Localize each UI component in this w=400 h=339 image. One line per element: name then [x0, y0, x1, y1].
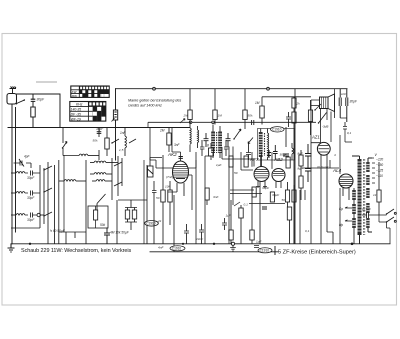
IF transformer 1: [190, 125, 245, 159]
svg-text:50: 50: [234, 171, 238, 175]
potentiometer near tables: [112, 110, 118, 122]
svg-text:4: 4: [334, 153, 336, 157]
svg-text:0,1: 0,1: [347, 131, 352, 135]
capacitor 30pF top-left: [31, 97, 45, 102]
svg-text:Marke gelten bei Einstellung d: Marke gelten bei Einstellung des: [128, 99, 181, 103]
verticals: [86, 128, 99, 244]
caps small: [262, 207, 267, 209]
svg-text:AB2: AB2: [273, 157, 283, 162]
IF transformer 2: [246, 129, 295, 167]
svg-text:KHz: KHz: [76, 103, 83, 107]
resistor: [105, 138, 109, 149]
resistor left chain: [31, 107, 35, 117]
svg-text:24nF: 24nF: [195, 237, 204, 241]
svg-text:AZ1: AZ1: [311, 135, 320, 140]
svg-text:1nF: 1nF: [341, 92, 346, 96]
wire secondary bottom line: [150, 251, 278, 253]
rectifier tube AZ1: [311, 135, 333, 244]
cap 30pF at 99: [97, 132, 102, 134]
svg-text:30pF: 30pF: [37, 98, 46, 102]
resistor 2M AK2 grid: [159, 128, 181, 152]
AK2 grid cap: [179, 157, 183, 159]
tube AK2: [167, 152, 189, 196]
horizontal coil rows: [90, 162, 94, 164]
ground mid bottom: [230, 245, 236, 251]
svg-text:Hp: Hp: [339, 223, 343, 227]
svg-text:Kp: Kp: [339, 207, 343, 211]
row 2 black cells: [79, 90, 109, 94]
osc coil box left of AK2: [148, 158, 163, 244]
AK2 bias resistors: [144, 155, 177, 252]
svg-text:~125: ~125: [376, 169, 383, 173]
svg-text:1M: 1M: [218, 114, 223, 118]
coil vertical at 125: [124, 128, 126, 137]
C1910 bottom label: [158, 246, 185, 251]
svg-text:2k: 2k: [296, 102, 301, 106]
svg-text:1k: 1k: [373, 193, 377, 197]
tube AB2: [272, 157, 285, 188]
long vertical wires right section: [300, 100, 340, 244]
diode arrow left: [248, 138, 253, 144]
svg-text:Ϟ 60 50µF: Ϟ 60 50µF: [50, 229, 66, 233]
switch columns: [40, 160, 75, 244]
switch right top: [317, 113, 352, 170]
switch table 1: [71, 86, 109, 98]
resistor drop R-d x262: [255, 97, 311, 125]
body black cells: [93, 106, 106, 121]
svg-text:-3dB: -3dB: [322, 125, 328, 129]
wire ground bus bottom: [11, 243, 390, 245]
coil row 3: [11, 214, 16, 216]
svg-text:8: 8: [207, 144, 209, 148]
primary winding boxes: [352, 188, 356, 244]
left column resistors near AZ1: [294, 100, 321, 244]
wire vertical x62: [17, 94, 61, 128]
svg-text:8µF: 8µF: [298, 167, 303, 171]
switch table 2: [70, 102, 106, 122]
bottom node circles: [213, 243, 215, 245]
svg-text:30pF: 30pF: [27, 218, 35, 222]
svg-text:0,1: 0,1: [244, 203, 249, 207]
svg-text:5 ZF-Kreise (Einbereich-Super): 5 ZF-Kreise (Einbereich-Super): [278, 250, 356, 256]
tube AF7: [249, 157, 269, 188]
wires below speaker: [321, 109, 347, 143]
C1910 oval label right: [258, 248, 272, 253]
svg-text:~220: ~220: [376, 158, 383, 162]
svg-text:Schaub 229 11W: Wechselstrom,: Schaub 229 11W: Wechselstrom, kein Vorkr…: [21, 248, 131, 254]
svg-text:~150: ~150: [376, 163, 383, 167]
tube AL4: [332, 168, 353, 200]
svg-text:50k: 50k: [248, 114, 253, 118]
wire left vertical pair: [12, 105, 16, 244]
svg-text:C1910: C1910: [272, 128, 282, 132]
svg-text:C1910: C1910: [172, 247, 182, 251]
svg-text:2M: 2M: [183, 114, 189, 118]
svg-text:50: 50: [282, 198, 286, 202]
svg-text:50k: 50k: [100, 223, 106, 227]
svg-text:30pF: 30pF: [96, 127, 104, 131]
scattered component value labels: [93, 102, 377, 242]
svg-text:AL4: AL4: [332, 168, 342, 173]
svg-text:30µF: 30µF: [272, 193, 280, 197]
wire vertical x33: [32, 94, 34, 128]
svg-text:4M 10k 50µF: 4M 10k 50µF: [110, 231, 130, 235]
electrolytic caps 8uF: [305, 144, 312, 166]
header digit cells: [88, 102, 105, 107]
svg-text:DF -35: DF -35: [71, 112, 81, 116]
svg-text:140-35: 140-35: [71, 108, 82, 112]
top right: resistor pair x296: [286, 97, 296, 127]
switch diagonals: [112, 139, 136, 143]
node on top bus: [267, 87, 270, 90]
AVC line mid: [148, 119, 316, 128]
mixer left column assembly: [86, 128, 147, 244]
antenna coil box: [7, 94, 25, 105]
svg-text:1M: 1M: [255, 101, 260, 105]
mains switch and line cap: [361, 208, 396, 244]
resistor x207: [205, 188, 219, 205]
oval label mid right: [271, 127, 285, 132]
power transformer: [352, 156, 372, 244]
caps above AF7 region: [267, 127, 294, 160]
box column: [112, 156, 122, 200]
oscillator padder box: [88, 206, 108, 228]
svg-text:1,5: 1,5: [119, 148, 124, 152]
caps bottom: [104, 228, 110, 244]
svg-text:50: 50: [156, 196, 160, 200]
svg-text:50k: 50k: [93, 139, 98, 143]
ground: [8, 244, 15, 252]
svg-text:30pF: 30pF: [350, 100, 358, 104]
IF1 to AF7 grid wire: [222, 147, 262, 194]
det resistors under AF7: [184, 89, 296, 248]
series cap in AVC line: [252, 120, 254, 125]
svg-text:2M: 2M: [159, 129, 165, 133]
wire vertical x115: [115, 89, 117, 160]
capacitor trimmer 4pF: [19, 159, 24, 167]
svg-text:10k: 10k: [165, 185, 170, 189]
row 3 black cells: [82, 94, 100, 98]
wires mixer to IF: [150, 127, 196, 210]
transformer taps Kp Hp: [339, 207, 352, 227]
resistor drop R-a x190: [188, 89, 192, 125]
band switch extra arm: [62, 128, 99, 156]
antenna: [10, 87, 17, 94]
svg-text:AF7: AF7: [249, 157, 259, 162]
resistor drop R-c x245: [243, 89, 247, 125]
wire branch y163 with trimmer cap: [14, 163, 32, 168]
coil row 2: [11, 192, 16, 194]
resistor drop R-b x215: [213, 89, 217, 125]
wires to right coils: [59, 180, 64, 182]
C1910 oval label mid: [145, 221, 159, 227]
small coupling box: [207, 143, 214, 160]
svg-text:8µF: 8µF: [298, 152, 303, 156]
resistor right low: [377, 162, 381, 215]
band switch assembly left: [11, 155, 86, 244]
caps right of speaker: [339, 89, 348, 122]
wire top bus: [116, 88, 348, 90]
gray dash mark top-left: [36, 81, 57, 83]
speaker: [311, 89, 335, 112]
lower structure: [97, 194, 106, 210]
svg-text:30pF: 30pF: [27, 196, 35, 200]
svg-text:Geräts auf 1400 kHz: Geräts auf 1400 kHz: [128, 104, 162, 108]
svg-text:ja 3nF: ja 3nF: [361, 208, 372, 212]
svg-text:0,1: 0,1: [305, 229, 310, 233]
svg-text:30pF: 30pF: [27, 176, 35, 180]
svg-text:(7nF): (7nF): [166, 175, 173, 179]
svg-text:2k: 2k: [157, 219, 162, 223]
coil row 1: [11, 172, 16, 174]
voltage selector: [372, 153, 383, 183]
svg-text:C1910: C1910: [260, 249, 270, 253]
svg-text:AK2: AK2: [167, 152, 177, 157]
svg-text:~110: ~110: [376, 174, 383, 178]
note handwriting: [128, 99, 181, 108]
svg-text:WF-29: WF-29: [71, 117, 81, 121]
header digit cells: [79, 86, 109, 89]
mid vertical wires: [196, 147, 272, 244]
twin resistors under IF1: [200, 140, 290, 202]
twin resistor bridge: [125, 200, 137, 230]
page edge frame: [2, 34, 397, 306]
wire upper-left horizontal: [8, 127, 190, 129]
